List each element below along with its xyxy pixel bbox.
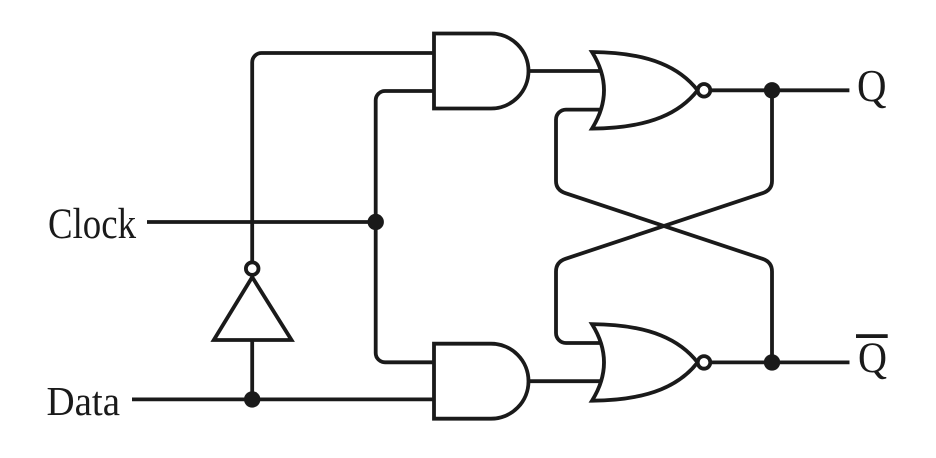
svg-text:Q: Q bbox=[857, 61, 887, 111]
svg-text:Q: Q bbox=[858, 335, 887, 382]
svg-text:Data: Data bbox=[47, 378, 121, 424]
svg-text:Clock: Clock bbox=[48, 201, 136, 248]
